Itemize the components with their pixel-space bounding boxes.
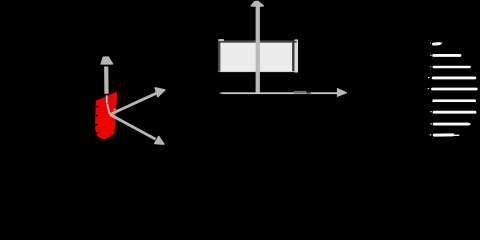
axis dash segment a	[294, 91, 307, 94]
intensity bar 1	[430, 43, 442, 45]
intensity bar 7	[430, 111, 475, 112]
box top-left highlight	[218, 39, 224, 41]
node: vector origin dot	[114, 109, 116, 111]
vertical axis arrowhead	[250, 1, 264, 7]
potential box body	[218, 41, 294, 72]
potential box side face (3D edge)	[294, 40, 298, 72]
box bottom edge	[220, 70, 294, 73]
axis dash segment b	[307, 92, 311, 94]
intensity bar 6	[434, 99, 475, 102]
horizontal axis arrowhead	[337, 88, 346, 97]
box right border	[292, 41, 294, 72]
vector arrow lower-right	[110, 115, 164, 145]
vector arrow upper-right	[110, 88, 165, 115]
normal vector arrow (up)	[101, 57, 113, 114]
intensity bar 2	[430, 55, 460, 56]
intensity bar 9	[430, 134, 459, 135]
intensity bar 4	[428, 77, 475, 78]
vertical axis shaft	[256, 5, 260, 94]
box left border	[218, 41, 220, 72]
box top border	[218, 41, 297, 43]
intensity bar 5	[428, 88, 477, 89]
intensity bar 3	[430, 66, 469, 67]
surface element dA (red patch)	[95, 91, 117, 139]
intensity bar 8	[430, 123, 470, 124]
horizontal axis start nub	[220, 92, 223, 94]
box top-right highlight	[295, 39, 298, 40]
horizontal axis line	[222, 92, 337, 94]
